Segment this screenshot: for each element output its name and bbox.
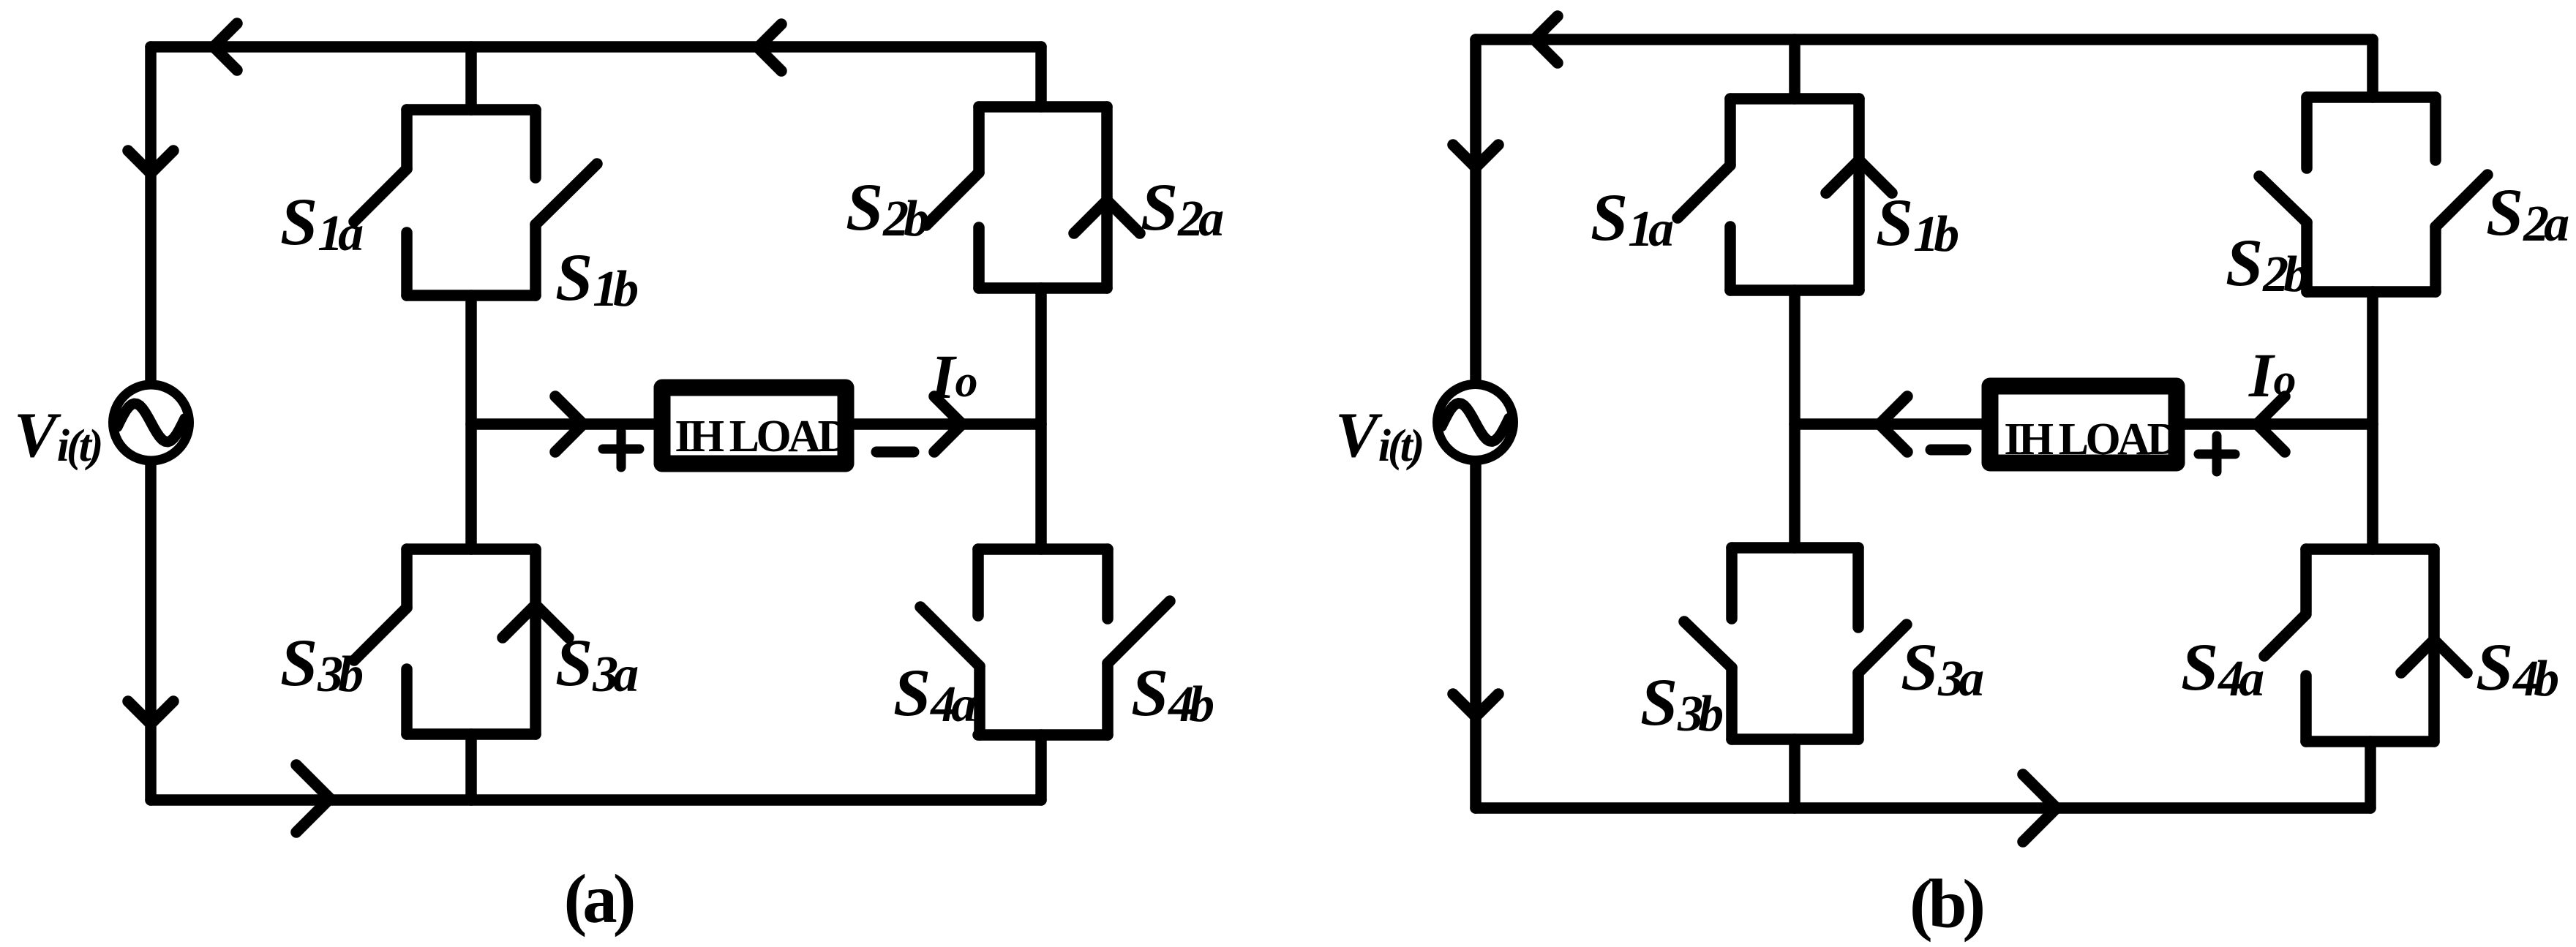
switch S4b (a): open, blade hinged at bottom opening up-right: [1108, 549, 1170, 735]
svg-text:S1a: S1a: [280, 184, 363, 262]
svg-text:Vi(t): Vi(t): [1335, 400, 1422, 471]
bidirectional switch S2 top bar (a): [979, 101, 1107, 113]
IH LOAD box (b): [1990, 386, 2177, 463]
svg-text:S2b: S2b: [846, 170, 928, 247]
svg-text:(b): (b): [1910, 865, 1983, 943]
wire: output rail right, load to right leg (a): [849, 418, 1041, 430]
switch S3a (a): closed, conducting with upward current arrow: [503, 549, 568, 734]
arrow: current on left wire lower (b): [1453, 694, 1498, 717]
svg-text:S1b: S1b: [1876, 185, 1958, 263]
bidirectional switch S3 top bar (b): [1732, 542, 1858, 554]
svg-text:S4a: S4a: [893, 655, 976, 733]
arrow: current on top bus left (a): [214, 23, 237, 70]
bidirectional switch S4 bottom bar (a): [978, 729, 1108, 741]
switch S1a (b): open, blade hinged at top: [1678, 99, 1730, 290]
minus polarity mark (a): [876, 447, 914, 458]
switch S4a (a): open, blade hinged at bottom opening up-left: [920, 549, 980, 735]
AC voltage source Vi(t) (a): [113, 385, 189, 461]
switch S2b (b): open, blade hinged at bottom opening up-left: [2259, 97, 2307, 292]
arrow: output current out of load (b): [1880, 396, 1907, 452]
switch S3a (b): open, blade hinged at bottom opening up-right: [1858, 548, 1907, 739]
svg-text:S3b: S3b: [280, 625, 362, 703]
wire: stub S4 to bottom bus (b): [2365, 742, 2376, 808]
svg-text:S3a: S3a: [555, 625, 638, 703]
switch S2b (a): open, blade hinged at top: [926, 107, 979, 288]
switch S2a (b): open, blade hinged at bottom opening up-right: [2436, 97, 2487, 292]
bidirectional switch S2 bottom bar (b): [2307, 286, 2436, 298]
svg-text:Vi(t): Vi(t): [14, 400, 101, 471]
wire: stub top bus into S1 (a): [465, 47, 477, 110]
wire: stub top bus into S1 (b): [1789, 39, 1800, 99]
svg-text:S1b: S1b: [555, 240, 637, 317]
bidirectional switch S3 top bar (a): [407, 543, 536, 555]
bidirectional switch S4 bottom bar (b): [2306, 736, 2434, 747]
svg-text:S4b: S4b: [2476, 630, 2558, 707]
arrow: output current Io (b): [2257, 396, 2285, 452]
arrow: current on top bus (b): [1534, 16, 1558, 63]
wire: top bus (a): [151, 41, 1041, 53]
svg-text:S1a: S1a: [1591, 180, 1673, 257]
arrow: current on left wire upper (a): [128, 151, 173, 173]
plus polarity mark (a): [603, 431, 639, 467]
switch S3b (a): open, blade hinged at top: [354, 549, 407, 734]
arrow: current on left wire lower (a): [128, 701, 173, 724]
bidirectional switch S2 bottom bar (a): [979, 282, 1107, 294]
wire: stub top bus into S2 (a): [1035, 47, 1047, 107]
switch S1b (b): closed, conducting with upward current arrow: [1826, 99, 1892, 290]
svg-text:S3b: S3b: [1640, 665, 1722, 742]
switch S4b (b): closed, conducting with upward current arrow: [2401, 549, 2467, 742]
bidirectional switch S4 top bar (a): [978, 543, 1108, 555]
wire: right leg S2 to S4 through output node (a): [1035, 288, 1047, 549]
bidirectional switch S1 top bar (a): [407, 104, 536, 116]
IH LOAD box (a): [662, 388, 846, 464]
wire: right leg S2 to S4 through output node (b): [2367, 292, 2378, 549]
wire: output rail right, load to right leg (b): [2180, 418, 2373, 430]
bidirectional switch S4 top bar (b): [2306, 543, 2434, 555]
AC voltage source Vi(t) (b): [1438, 385, 1514, 461]
svg-text:S2a: S2a: [2486, 175, 2569, 252]
wire: output rail left, leg to IH load (b): [1795, 418, 1986, 430]
wire: left branch lower, source to bottom bus (a): [145, 465, 157, 800]
svg-text:S4a: S4a: [2181, 630, 2264, 707]
switch S1b (a): open, blade hinged at bottom: [536, 110, 597, 295]
svg-text:IH LOAD: IH LOAD: [2004, 415, 2177, 464]
wire: stub S3 to bottom bus (a): [465, 734, 477, 800]
arrow: current on bottom bus (b): [2023, 774, 2057, 842]
switch S2a (a): closed, conducting with upward current arrow: [1074, 107, 1140, 288]
bidirectional switch S3 bottom bar (a): [407, 728, 536, 740]
arrow: current on left wire upper (b): [1453, 145, 1498, 167]
wire: left branch lower, source to bottom bus (b): [1470, 465, 1482, 808]
wire: left branch upper, top bus to source (b): [1470, 39, 1482, 380]
svg-text:S3a: S3a: [1901, 630, 1983, 707]
wire: stub S3 to bottom bus (b): [1789, 739, 1800, 808]
wire: output rail left, leg to IH load (a): [471, 418, 658, 430]
svg-text:(a): (a): [564, 860, 634, 937]
wire: stub top bus into S2 (b): [2367, 39, 2378, 97]
bidirectional switch S3 bottom bar (b): [1732, 733, 1858, 745]
switch S3b (b): open, blade hinged at bottom opening up-left: [1684, 548, 1732, 739]
wire: bottom bus (a): [151, 794, 1041, 806]
svg-text:S4b: S4b: [1131, 655, 1213, 733]
bidirectional switch S2 top bar (b): [2307, 91, 2436, 103]
wire: left leg S1 to S3 through output node (b): [1789, 290, 1800, 548]
arrow: output current into load (a): [555, 396, 583, 452]
arrow: current on top bus right (a): [758, 24, 781, 71]
bidirectional switch S1 bottom bar (b): [1730, 284, 1859, 296]
wire: stub S4 to bottom bus (a): [1035, 735, 1047, 800]
wire: left branch upper, top bus to source (a): [145, 47, 157, 381]
switch S4a (b): open, blade hinged at top: [2264, 549, 2306, 742]
wire: bottom bus (b): [1476, 802, 2370, 814]
svg-text:IH LOAD: IH LOAD: [675, 412, 848, 461]
bidirectional switch S1 top bar (b): [1730, 93, 1859, 105]
bidirectional switch S1 bottom bar (a): [407, 290, 536, 301]
arrow: current on bottom bus (a): [296, 765, 330, 832]
arrow: output current Io (a): [934, 396, 962, 452]
switch S1a (a): open, blade hinged at top: [354, 110, 407, 295]
wire: left leg S1 to S3 through output node (a): [465, 295, 477, 549]
svg-text:S2a: S2a: [1141, 170, 1223, 247]
svg-text:S2b: S2b: [2226, 225, 2307, 303]
wire: top bus (b): [1476, 34, 2373, 45]
plus polarity mark (b): [2198, 436, 2235, 472]
minus polarity mark (b): [1931, 445, 1966, 456]
